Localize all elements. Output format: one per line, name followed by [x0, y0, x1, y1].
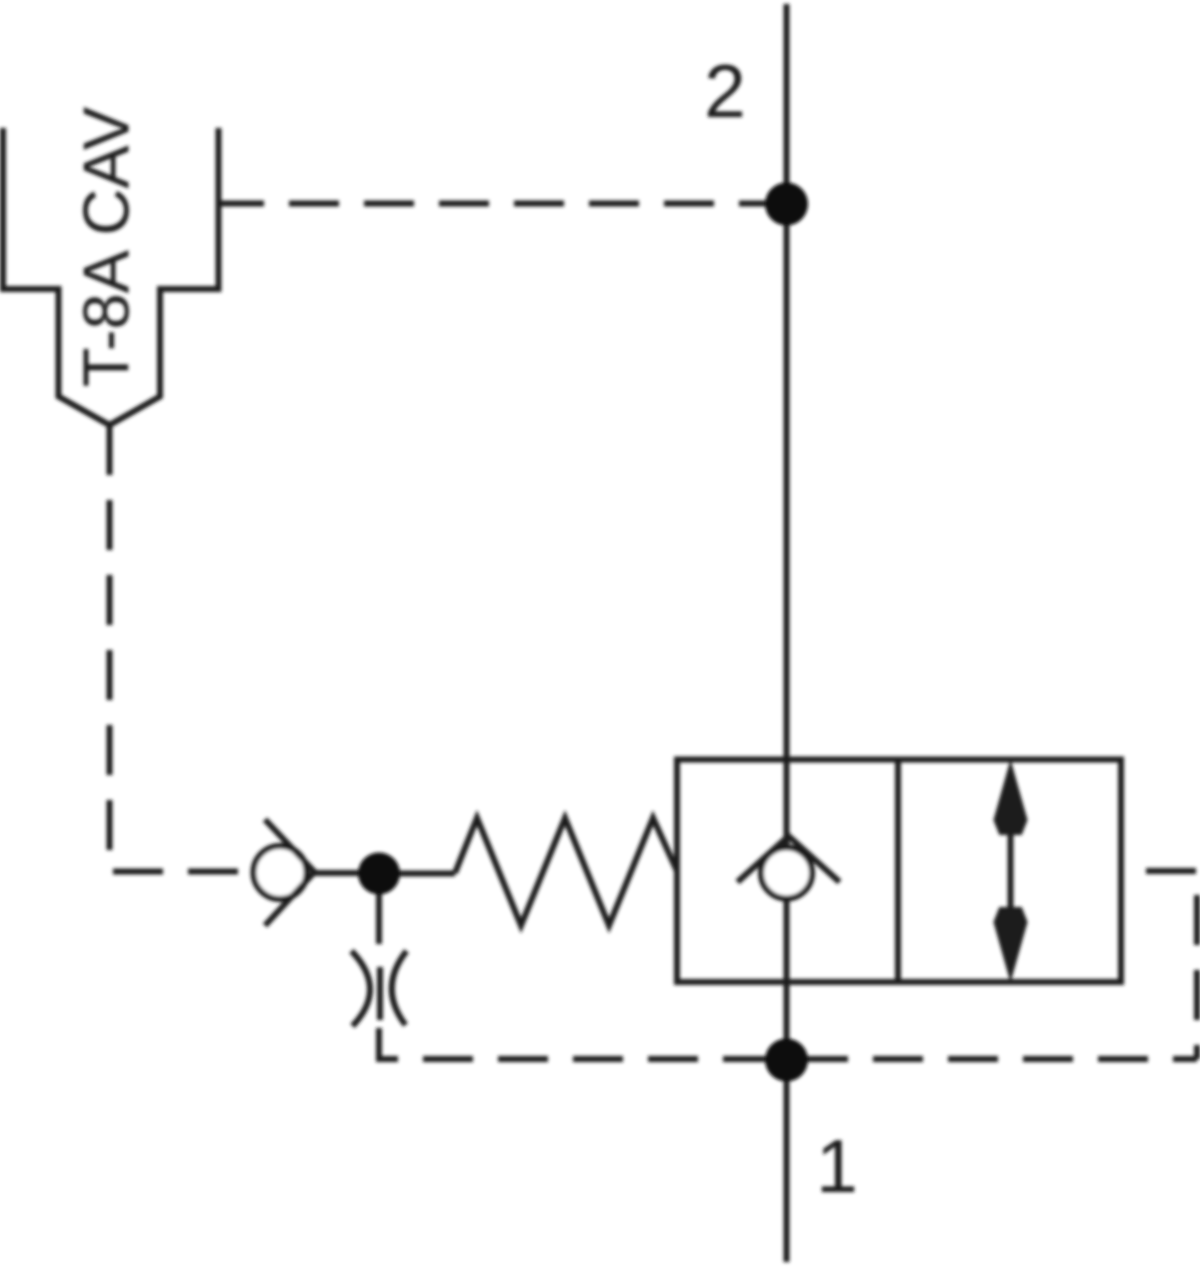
cavity T-8A CAV outline	[3, 128, 219, 425]
node 2 junction dot	[765, 183, 808, 226]
orifice (restriction)	[352, 951, 407, 1026]
svg-text:2: 2	[704, 49, 746, 133]
node B junction dot	[358, 853, 400, 895]
wire: dashed from orifice down then right along bottom	[379, 1028, 1197, 1059]
wire: node B to spring	[379, 871, 455, 877]
valve box divider	[895, 760, 901, 983]
node 1 junction dot	[765, 1039, 808, 1082]
wire: cavity port tick	[219, 201, 253, 207]
spring	[455, 818, 677, 926]
check valve poppet U1 (inside box)	[738, 836, 840, 899]
flow arrow (double headed, right cell)	[995, 763, 1027, 979]
svg-text:T-8A CAV: T-8A CAV	[70, 106, 143, 387]
check valve CV1 (left)	[254, 820, 315, 926]
wire: node B down to orifice	[376, 874, 382, 945]
svg-text:1: 1	[816, 1124, 858, 1208]
wire: dashed pilot from valve box right side down to bottom line	[1121, 871, 1197, 1059]
wire: main vertical port line 2-1	[784, 4, 790, 1262]
valve envelope box	[677, 760, 1121, 983]
wire: dashed drain line from cavity tip down and right to check valve	[110, 425, 253, 872]
wire: dashed pilot line from cavity to node 2	[252, 201, 789, 207]
wire: check valve to node B	[315, 870, 380, 876]
